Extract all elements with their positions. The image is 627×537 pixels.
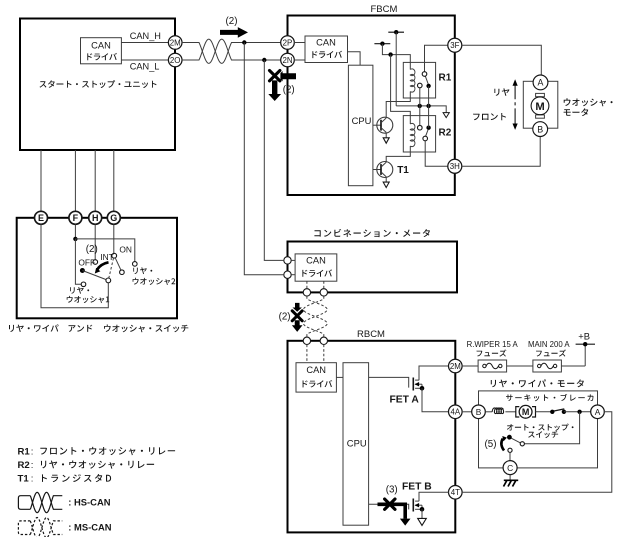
wire 2N to CAN driver	[294, 59, 305, 61]
svg-text:F: F	[73, 213, 79, 223]
wire G to switch pivot	[113, 224, 115, 253]
switch bottom common contact	[106, 278, 111, 283]
svg-text:(2): (2)	[283, 85, 295, 96]
fuse MAIN 200A	[533, 360, 562, 372]
meter pin upper-left	[284, 257, 291, 264]
wire H to OFF contact	[94, 224, 96, 259]
svg-text:CAN_H: CAN_H	[130, 31, 161, 41]
wire FET B drain to 4T	[419, 492, 449, 501]
svg-text:(2): (2)	[279, 312, 291, 323]
fuse R.WIPER 15A	[478, 360, 507, 372]
CPU (RBCM)	[343, 363, 369, 526]
svg-text:C: C	[507, 463, 513, 473]
washer motor terminal A	[533, 75, 548, 90]
combination meter box	[288, 242, 458, 293]
label washer motor	[564, 98, 613, 106]
svg-text:R1: R1	[439, 73, 452, 84]
CAN driver U (meter)	[295, 254, 337, 281]
RBCM pin top B	[320, 337, 327, 344]
switch blade to ON contact	[115, 258, 121, 270]
meter pin lower-left	[284, 271, 291, 278]
dashed wires RBCM pins to CAN driver	[306, 345, 308, 363]
svg-text:CAN: CAN	[91, 40, 111, 50]
svg-text:(3): (3)	[386, 485, 398, 496]
washer motor M	[531, 97, 549, 115]
switch wiper arm	[80, 268, 85, 273]
wire feed2 to R1 coil	[382, 44, 410, 63]
auto stop switch arrow	[501, 439, 504, 451]
blocked-path X mark FET B	[378, 503, 408, 519]
direction double arrow	[514, 85, 516, 96]
ground (terminal C)	[509, 475, 511, 480]
svg-text:FET A: FET A	[390, 395, 420, 406]
switch caption	[9, 324, 59, 332]
FET B	[369, 504, 409, 509]
pin 4T	[449, 486, 463, 500]
wires from start-stop unit to switch	[40, 150, 42, 211]
wire FET A source to 4A	[422, 388, 449, 412]
svg-text:R2: R2	[18, 460, 30, 471]
switch rotate arrow	[97, 262, 109, 270]
label rear washer 1	[70, 287, 89, 294]
svg-text:E: E	[38, 213, 44, 223]
rear wiper motor label	[491, 379, 584, 387]
start-stop unit box	[20, 19, 175, 151]
pin 3H	[448, 159, 462, 173]
pin 2M (RBCM)	[449, 359, 463, 373]
junction dot feed2	[388, 52, 392, 56]
transistor Q (upper, FBCM)	[373, 124, 377, 126]
svg-text:2M: 2M	[450, 362, 461, 371]
label rear washer 2	[133, 267, 152, 274]
svg-text:CPU: CPU	[352, 115, 372, 126]
svg-text:CAN_L: CAN_L	[130, 62, 160, 72]
svg-text:R1: R1	[18, 446, 31, 457]
wire CAN driver to CPU (RBCM)	[336, 376, 343, 378]
svg-text::: :	[31, 460, 34, 471]
svg-text:: HS-CAN: : HS-CAN	[68, 497, 110, 508]
svg-text:R2: R2	[439, 128, 452, 139]
auto stop switch	[525, 412, 580, 444]
wire rail to R2 contacts	[419, 106, 421, 126]
wire fuse to fuse	[507, 365, 533, 367]
pin H	[89, 211, 102, 224]
pin 3F	[448, 38, 462, 52]
pin 2N	[281, 53, 295, 67]
svg-text:: MS-CAN: : MS-CAN	[68, 521, 111, 532]
wire R1 moving contact to rail	[428, 86, 430, 106]
signal direction arrow (2) down at 2N	[268, 80, 281, 101]
FBCM box	[288, 16, 455, 196]
wire 2M to R.WIPER fuse	[462, 365, 478, 367]
svg-text:(2): (2)	[86, 244, 98, 255]
wire E to common	[41, 224, 108, 307]
+B feed	[561, 365, 585, 367]
wire FET B source to ground	[421, 509, 423, 518]
svg-text:T1: T1	[18, 474, 30, 485]
rear washer 1 contact	[81, 282, 86, 287]
svg-text:M: M	[522, 407, 530, 417]
svg-text:CAN: CAN	[306, 365, 326, 375]
wire 3F to washer motor A	[462, 45, 542, 75]
pin 4A	[449, 405, 463, 419]
svg-text:H: H	[92, 213, 99, 223]
svg-text:M: M	[535, 101, 544, 113]
svg-text:T1: T1	[397, 165, 409, 176]
junction node CAN_L	[262, 58, 266, 62]
svg-text:4A: 4A	[450, 408, 460, 417]
svg-text:(5): (5)	[485, 439, 497, 450]
svg-text::: :	[31, 446, 34, 457]
legend MS-CAN symbol	[18, 521, 30, 535]
wire R1 common to 3F	[425, 45, 449, 62]
CAN driver U (FBCM)	[305, 36, 348, 63]
label auto stop switch	[507, 424, 574, 431]
svg-text:OFF: OFF	[78, 258, 95, 268]
RBCM box	[288, 341, 456, 533]
pin 2O	[168, 53, 182, 67]
armature coil	[485, 411, 492, 413]
HS-CAN twisted pair	[182, 39, 281, 63]
power feed bar 1 (FBCM)	[388, 31, 404, 33]
wire FET A drain to 2M	[419, 366, 449, 380]
washer motor brush top	[536, 93, 545, 96]
svg-text:FET B: FET B	[402, 481, 432, 492]
rail output open arrow	[443, 113, 449, 118]
wire R1 coil to transistor collector	[386, 98, 410, 117]
CPU (FBCM)	[348, 65, 373, 186]
wire R1 NC contact to rail	[419, 88, 421, 106]
svg-text:CPU: CPU	[347, 437, 367, 448]
rear wiper motor M with brushes	[516, 407, 520, 417]
svg-text:RBCM: RBCM	[357, 329, 385, 340]
wire CAN_L branch to meter	[264, 60, 283, 260]
wire meter pins to CAN driver	[291, 259, 295, 261]
wire switch to C	[509, 452, 511, 460]
svg-text:2M: 2M	[170, 38, 181, 47]
CAN driver U (start-stop unit)	[81, 38, 122, 64]
rail junction dot right	[426, 104, 430, 108]
washer motor terminal B	[533, 122, 548, 137]
rear washer 2 contact	[133, 262, 138, 267]
wire CAN_L	[121, 59, 168, 61]
svg-text:B: B	[537, 124, 543, 134]
svg-text:+B: +B	[578, 330, 590, 341]
svg-text:A: A	[595, 407, 601, 417]
svg-text:A: A	[538, 78, 544, 88]
junction to auto stop switch	[577, 410, 581, 414]
ground (FET B source)	[418, 518, 427, 525]
OFF contact	[93, 260, 98, 265]
svg-text:(2): (2)	[226, 16, 238, 27]
blocked-path arrow (2) down to RBCM	[292, 303, 301, 312]
relay R1 coil	[409, 62, 411, 69]
pin G	[107, 211, 120, 224]
pin F	[69, 211, 82, 224]
svg-text:G: G	[110, 213, 117, 223]
meter pin bottom A	[303, 289, 310, 296]
svg-text:R.WIPER 15 A: R.WIPER 15 A	[467, 340, 519, 349]
circuit breaker contact	[536, 411, 553, 413]
rail junction dot left	[418, 104, 422, 108]
label riya (rear)	[494, 88, 509, 96]
wire F to washer contacts	[74, 224, 76, 239]
switch pivot contact	[112, 253, 117, 258]
relay R1 contact	[424, 62, 426, 71]
washer motor brush bottom	[536, 115, 545, 118]
wire CAN_H	[121, 42, 168, 44]
switch INT dashed link	[109, 258, 114, 278]
transistor T1	[373, 169, 377, 171]
svg-text:INT: INT	[100, 252, 114, 262]
wire CAN_H branch to meter	[244, 43, 283, 275]
svg-text:2N: 2N	[282, 56, 292, 65]
svg-text:MAIN 200 A: MAIN 200 A	[528, 340, 570, 349]
svg-text::: :	[31, 474, 34, 485]
svg-text:3H: 3H	[450, 162, 460, 171]
wire CAN driver to CPU (FBCM)	[348, 52, 361, 65]
relay R1 box	[403, 62, 435, 98]
terminal C	[503, 461, 517, 475]
meter pin bottom B	[320, 289, 327, 296]
pin 2M	[168, 36, 182, 50]
MS-CAN twisted pair (meter to RBCM)	[304, 296, 328, 337]
pin E	[35, 211, 48, 224]
FET A	[369, 377, 409, 387]
combination meter label	[314, 229, 430, 237]
wire feed1 to contact rail	[395, 32, 397, 106]
svg-text:4T: 4T	[451, 488, 460, 497]
dashed wires CAN driver to bottom pins	[306, 281, 308, 289]
relay R2 contact	[418, 125, 423, 130]
svg-text:CAN: CAN	[316, 37, 336, 47]
rear wiper motor box	[479, 391, 598, 468]
wire 2P to CAN driver	[294, 42, 305, 44]
wire R2 common to 3H	[425, 141, 448, 167]
contact rail wire	[396, 106, 446, 113]
rear wiper and washer switch box	[17, 218, 177, 318]
legend HS-CAN symbol	[18, 496, 30, 510]
svg-text:ON: ON	[119, 245, 132, 255]
wire 3H to washer motor B	[462, 137, 540, 167]
svg-text:2P: 2P	[283, 38, 293, 47]
terminal B (rear wiper)	[472, 405, 486, 419]
svg-text:3F: 3F	[450, 41, 459, 50]
svg-text:2O: 2O	[170, 56, 181, 65]
start-stop unit label	[40, 80, 157, 88]
CAN driver U (RBCM)	[296, 363, 336, 392]
pin 2P	[281, 36, 295, 50]
blocked-path X mark near 2N	[280, 71, 296, 81]
washer motor box	[523, 81, 558, 128]
terminal A (rear wiper)	[591, 405, 605, 419]
power feed bar 2 (FBCM)	[374, 43, 390, 45]
svg-text:B: B	[476, 407, 482, 417]
label circuit breaker	[506, 394, 593, 401]
svg-text:FBCM: FBCM	[371, 4, 398, 15]
wire R2 coil to T1 collector	[386, 152, 410, 162]
svg-text:CAN: CAN	[306, 255, 326, 265]
label front	[473, 113, 506, 120]
junction node CAN_H	[242, 40, 246, 44]
RBCM pin top A	[303, 337, 310, 344]
wire A to 4T	[462, 412, 612, 493]
wire 4A to B	[462, 411, 473, 413]
wire feed2 branch to R2 coil	[391, 55, 411, 116]
relay R2 coil	[409, 116, 411, 124]
relay R2 box	[403, 116, 435, 152]
